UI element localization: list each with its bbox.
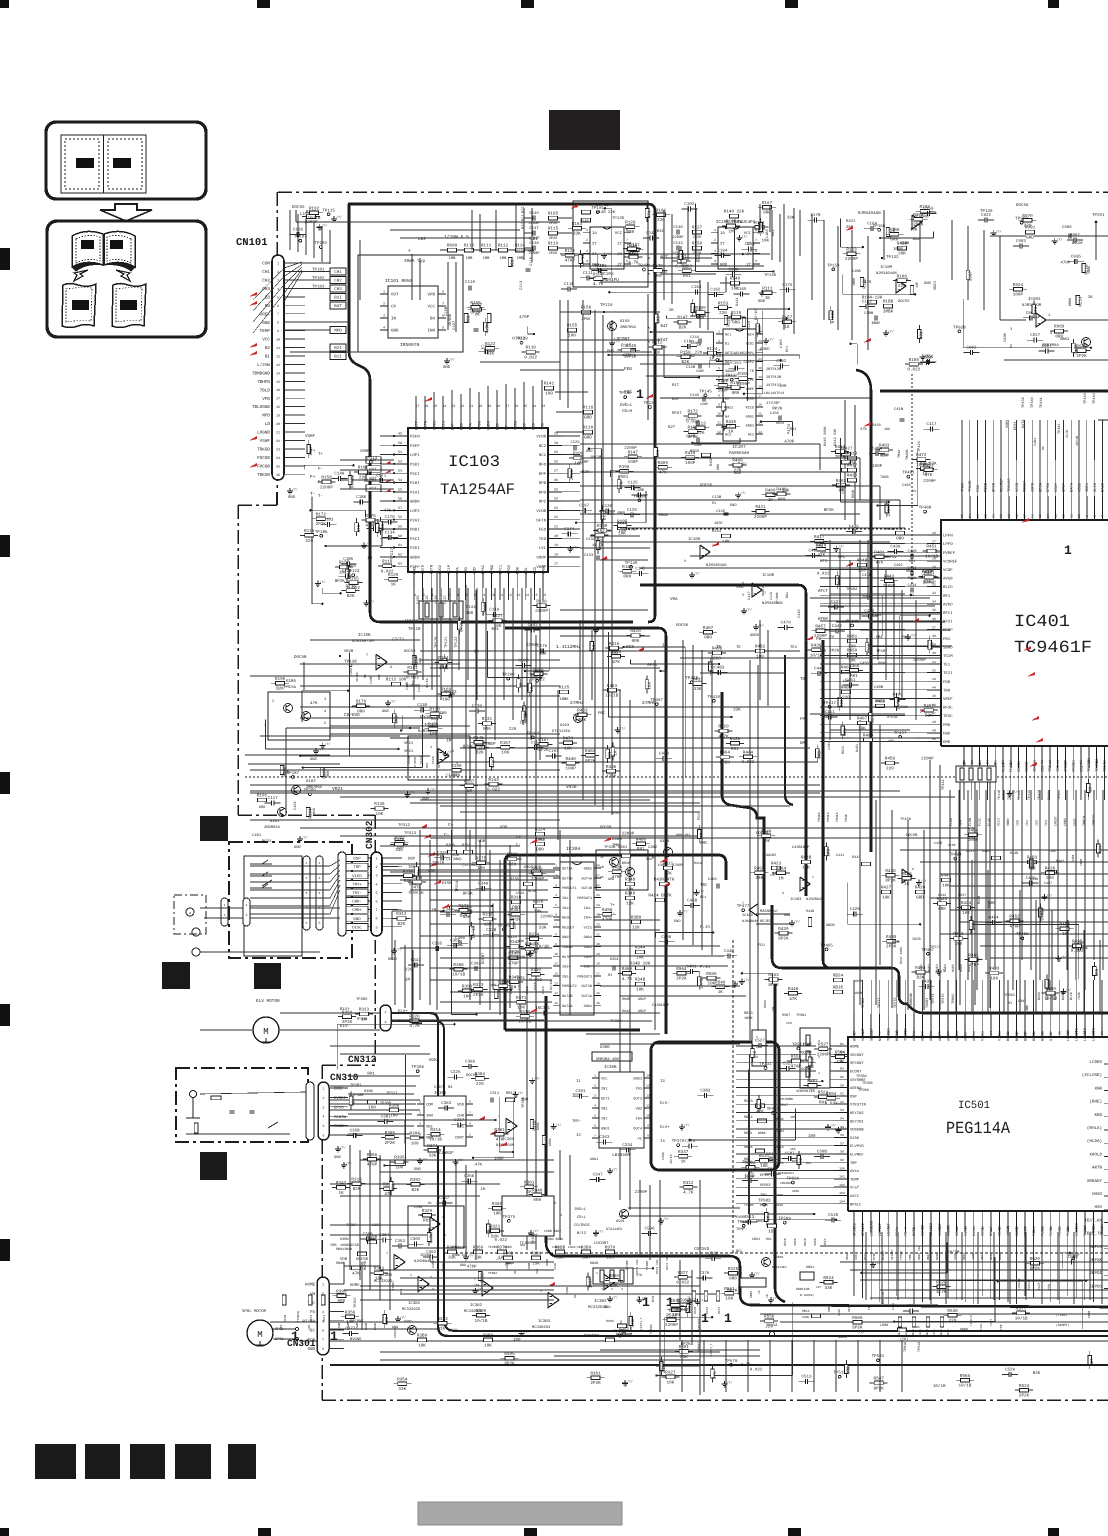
svg-text:/7/: /7/ <box>754 1271 760 1275</box>
svg-text:C520: C520 <box>906 1304 917 1309</box>
svg-text:C936: C936 <box>1071 254 1082 259</box>
svg-text:C180: C180 <box>684 339 695 344</box>
svg-text:35: 35 <box>932 608 936 612</box>
svg-text:RB35: RB35 <box>833 986 844 991</box>
svg-text:RB1B: RB1B <box>846 1253 849 1260</box>
svg-text:C440: C440 <box>724 949 735 954</box>
svg-text:27: 27 <box>932 539 936 543</box>
svg-text:HOME: HOME <box>305 1283 316 1288</box>
svg-text:RE2B: RE2B <box>562 916 570 921</box>
svg-text:R313: R313 <box>359 1008 370 1013</box>
svg-text:19: 19 <box>758 375 762 379</box>
down arrow <box>100 204 152 221</box>
svg-text:BUS0: BUS0 <box>1006 1032 1011 1041</box>
svg-text:/7/: /7/ <box>663 1217 669 1221</box>
svg-text:R112: R112 <box>652 341 663 346</box>
svg-text:C127: C127 <box>443 595 448 604</box>
svg-text:TPS77: TPS77 <box>877 997 882 1008</box>
svg-text:4: 4 <box>714 259 716 263</box>
svg-text:D30B: D30B <box>600 1045 610 1050</box>
svg-text:VOD: VOD <box>473 566 478 574</box>
svg-text:/7/: /7/ <box>524 1330 530 1334</box>
svg-text:R498: R498 <box>712 647 723 652</box>
svg-text:R3B4 B2OK: R3B4 B2OK <box>546 1237 563 1241</box>
CN310 mate pill <box>306 1082 314 1140</box>
svg-text:R395: R395 <box>394 1156 405 1161</box>
svg-text:220: 220 <box>898 284 906 289</box>
svg-text:4C: 4C <box>600 875 604 879</box>
svg-text:ELVREF: ELVREF <box>850 1153 864 1158</box>
svg-text:8P2K: 8P2K <box>335 579 346 584</box>
svg-text:C134: C134 <box>385 530 396 535</box>
svg-text:VRA: VRA <box>455 566 460 574</box>
svg-text:VCC: VCC <box>262 338 270 343</box>
svg-text:R457: R457 <box>815 624 826 629</box>
svg-text:TPB1G: TPB1G <box>903 1342 908 1352</box>
C129 cap <box>573 446 575 451</box>
svg-text:R565: R565 <box>852 1316 863 1321</box>
svg-text:DMO: DMO <box>800 741 808 746</box>
svg-text:C1BB: C1BB <box>852 269 861 274</box>
svg-text:6: 6 <box>442 314 444 319</box>
svg-text:TPSB1: TPSB1 <box>796 1013 806 1018</box>
black square fiducial left CN302 <box>162 962 190 989</box>
svg-text:EOB: EOB <box>459 422 464 430</box>
svg-text:/7/: /7/ <box>744 978 750 982</box>
svg-text:C906: C906 <box>1062 225 1072 230</box>
svg-text:1M: 1M <box>446 738 452 743</box>
svg-text:R148: R148 <box>622 565 633 570</box>
svg-text:5: 5 <box>319 921 321 925</box>
svg-text:/7/: /7/ <box>692 1297 698 1301</box>
svg-text:1: 1 <box>319 861 321 865</box>
svg-text:52: 52 <box>398 459 402 464</box>
svg-text:2: 2 <box>375 865 377 870</box>
svg-text:22: 22 <box>984 514 988 518</box>
svg-text:XNR: XNR <box>1094 1086 1102 1091</box>
left 3pin pack <box>752 1030 766 1066</box>
svg-text:100P: 100P <box>566 767 577 772</box>
svg-text:R429: R429 <box>718 725 729 730</box>
svg-text:/7/: /7/ <box>699 889 705 893</box>
svg-text:R179: R179 <box>356 700 367 705</box>
svg-text:GND: GND <box>730 503 736 508</box>
svg-text:1: 1 <box>224 903 226 907</box>
svg-text:8P2K: 8P2K <box>778 937 789 942</box>
svg-text:C353: C353 <box>395 1239 406 1244</box>
svg-text:DATA: DATA <box>1070 482 1075 492</box>
svg-text:R452: R452 <box>1009 915 1020 920</box>
gray footer bar <box>418 1502 622 1525</box>
svg-text:R373 10K: R373 10K <box>656 1259 659 1274</box>
svg-text:8P2K: 8P2K <box>874 1386 885 1391</box>
svg-text:1MBK: 1MBK <box>883 309 894 314</box>
svg-text:C411: C411 <box>825 710 836 715</box>
svg-text:TRKGD: TRKGD <box>257 448 270 453</box>
svg-text:DEIC: DEIC <box>823 1238 827 1246</box>
svg-text:2200P: 2200P <box>528 236 540 241</box>
svg-text:+: + <box>408 248 411 254</box>
svg-text:11: 11 <box>646 1104 650 1108</box>
svg-text:R361: R361 <box>590 1372 601 1377</box>
svg-text:T-: T- <box>310 491 316 497</box>
svg-text:C1BB: C1BB <box>864 311 874 316</box>
svg-text:RE2OUT: RE2OUT <box>562 925 575 930</box>
svg-text:17470P: 17470P <box>766 401 780 406</box>
svg-text:R147: R147 <box>628 450 639 455</box>
svg-text:NC: NC <box>504 425 509 430</box>
svg-text:/7/: /7/ <box>325 742 331 746</box>
svg-text:FEB: FEB <box>531 422 536 430</box>
svg-text:R345: R345 <box>394 838 405 843</box>
svg-text:43: 43 <box>932 677 936 681</box>
svg-text:TRC: TRC <box>700 883 708 888</box>
op-amp circuit box IC101 <box>358 255 463 352</box>
svg-text:1: 1 <box>636 387 644 402</box>
svg-text:R463: R463 <box>585 749 596 754</box>
svg-text:C143: C143 <box>673 241 683 246</box>
svg-text:100K: 100K <box>802 1316 809 1319</box>
R1B4 R1BB parts <box>868 300 877 304</box>
svg-text:10/1B: 10/1B <box>429 1137 442 1143</box>
svg-text:14: 14 <box>646 1074 650 1078</box>
svg-text:FLSC: FLSC <box>978 818 982 826</box>
svg-text:33K: 33K <box>474 1255 482 1260</box>
svg-text:11: 11 <box>276 346 280 351</box>
svg-text:C90B: C90B <box>1003 333 1008 342</box>
svg-text:FOO: FOO <box>943 680 951 685</box>
RS24 RS35 resistors <box>834 978 843 982</box>
svg-text:36: 36 <box>932 617 936 621</box>
svg-text:C133: C133 <box>584 553 594 558</box>
svg-text:R493: R493 <box>989 967 1000 972</box>
svg-text:R145: R145 <box>473 736 484 741</box>
svg-text:8P2K: 8P2K <box>720 760 731 765</box>
svg-text:AD5: AD5 <box>955 1035 960 1041</box>
svg-text:99: 99 <box>840 1158 844 1162</box>
svg-text:CKSZ: CKSZ <box>1072 762 1077 772</box>
svg-text:1MBK: 1MBK <box>852 277 857 286</box>
svg-text:50: 50 <box>932 737 936 741</box>
svg-text:C102: C102 <box>684 202 695 207</box>
svg-text:DISK: DISK <box>850 1136 860 1141</box>
svg-text:OUT1A: OUT1A <box>562 867 573 872</box>
svg-text:LPFN: LPFN <box>943 534 953 539</box>
svg-text:BLCK: BLCK <box>1040 1032 1045 1041</box>
svg-text:1: 1 <box>277 262 279 267</box>
svg-text:MAD2: MAD2 <box>927 964 931 972</box>
svg-text:R330: R330 <box>403 869 414 874</box>
svg-text:22: 22 <box>596 923 600 927</box>
svg-text:R420: R420 <box>630 629 641 634</box>
svg-text:RB04: RB04 <box>763 1000 767 1008</box>
svg-text:C145: C145 <box>635 566 646 571</box>
svg-text:1K: 1K <box>681 1160 687 1165</box>
svg-text:R969: R969 <box>1054 325 1065 330</box>
svg-text:TE: TE <box>750 369 754 374</box>
svg-text:C137: C137 <box>529 226 539 231</box>
svg-text:VC: VC <box>638 1137 642 1142</box>
svg-text:10K: 10K <box>725 1297 733 1302</box>
svg-text:R322: R322 <box>532 867 543 872</box>
svg-text:C170: C170 <box>385 515 396 520</box>
svg-text:RB41: RB41 <box>927 1253 930 1260</box>
svg-text:104: 104 <box>839 1200 845 1204</box>
svg-text:C902: C902 <box>966 345 977 350</box>
svg-text:C484: C484 <box>872 447 883 452</box>
svg-text:20: 20 <box>999 514 1003 518</box>
svg-text:R118: R118 <box>382 560 393 565</box>
svg-text:R3B9: R3B9 <box>483 1334 494 1339</box>
bus wire bottom LDCONT <box>554 1256 1108 1307</box>
svg-text:R37B: R37B <box>284 1315 287 1322</box>
svg-text:B1I: B1I <box>334 355 342 360</box>
svg-text:1COP: 1COP <box>948 843 956 847</box>
svg-text:47K: 47K <box>1034 307 1039 315</box>
svg-text:45: 45 <box>932 694 936 698</box>
svg-text:47K: 47K <box>860 427 868 432</box>
svg-text:R190: R190 <box>275 677 286 682</box>
svg-text:1M: 1M <box>700 832 705 838</box>
svg-text:/7/: /7/ <box>941 968 947 972</box>
svg-text:R554: R554 <box>826 1092 837 1097</box>
svg-text:PBTN: PBTN <box>430 565 435 574</box>
svg-text:57: 57 <box>398 506 402 511</box>
wire mesh verticals <box>437 300 990 1395</box>
svg-text:R01: R01 <box>423 1219 431 1224</box>
svg-text:MAD5: MAD5 <box>951 964 955 972</box>
svg-text:6: 6 <box>322 1329 324 1334</box>
svg-text:BRBK: BRBK <box>1068 297 1073 306</box>
svg-text:TM413: TM413 <box>826 812 830 822</box>
svg-text:TP3B5Q: TP3B5Q <box>297 1311 300 1322</box>
svg-text:8P2K: 8P2K <box>504 1362 515 1367</box>
svg-text:GNDX: GNDX <box>486 420 491 430</box>
svg-text:R11: R11 <box>400 1288 403 1294</box>
svg-text:C325: C325 <box>450 1070 461 1075</box>
svg-text:C31B: C31B <box>525 986 529 994</box>
svg-text:IN4: IN4 <box>636 1117 642 1122</box>
svg-text:TP41B: TP41B <box>1017 790 1022 800</box>
svg-text:PSC: PSC <box>522 422 527 430</box>
svg-text:G404: G404 <box>660 839 670 844</box>
svg-text:a: a <box>189 912 191 916</box>
svg-text:FOCGR: FOCGR <box>257 464 270 469</box>
svg-text:PSCI: PSCI <box>410 537 420 542</box>
svg-text:VIO: VIO <box>998 1035 1003 1041</box>
svg-text:470P: 470P <box>606 775 617 780</box>
svg-text:RO1: RO1 <box>377 674 381 680</box>
svg-text:6: 6 <box>912 867 914 871</box>
svg-text:GND: GND <box>924 281 932 286</box>
svg-text:C+: C+ <box>448 823 454 828</box>
svg-text:C3BO: C3BO <box>566 1287 569 1294</box>
svg-text:IC501: IC501 <box>958 1100 990 1112</box>
svg-text:10/1B: 10/1B <box>475 1318 488 1324</box>
svg-text:4.7K: 4.7K <box>1074 344 1079 355</box>
svg-text:5: 5 <box>469 1133 471 1137</box>
svg-text:23: 23 <box>276 447 280 452</box>
svg-text:RO1: RO1 <box>909 559 915 564</box>
svg-text:RB40 10K: RB40 10K <box>918 1245 921 1260</box>
svg-text:C436: C436 <box>849 525 860 530</box>
R411 R430 resistors <box>664 866 673 870</box>
cluster pass3 <box>629 255 638 259</box>
svg-text:KB01: KB01 <box>806 1265 814 1270</box>
svg-text:B2/1B: B2/1B <box>549 980 553 990</box>
svg-text:R393: R393 <box>507 853 518 858</box>
svg-text:10/1B: 10/1B <box>605 693 618 699</box>
svg-text:100P: 100P <box>968 271 973 282</box>
svg-text:/7/: /7/ <box>430 787 436 791</box>
svg-text:7: 7 <box>277 312 279 317</box>
svg-text:GND: GND <box>353 917 361 922</box>
cluster above IC401 <box>737 492 739 495</box>
svg-text:FLGB: FLGB <box>1049 1227 1054 1236</box>
wire mesh pass2 verticals <box>290 205 1100 1345</box>
svg-text:LCD2N: LCD2N <box>1066 1030 1071 1041</box>
bottom-left black squares row <box>35 1444 76 1479</box>
legend box 1 (page spread) <box>46 122 206 199</box>
svg-text:R01: R01 <box>850 674 858 679</box>
svg-text:PREOUT1: PREOUT1 <box>562 886 577 891</box>
svg-text:120P: 120P <box>700 402 708 407</box>
svg-text:20: 20 <box>276 422 280 427</box>
svg-text:0.022: 0.022 <box>381 569 394 574</box>
svg-text:C110: C110 <box>465 280 476 285</box>
svg-text:R390: R390 <box>462 985 473 990</box>
svg-text:XNAB: XNAB <box>998 1227 1003 1236</box>
svg-text:220: 220 <box>305 539 313 544</box>
svg-text:1: 1 <box>330 1329 338 1344</box>
svg-text:TEST_RX: TEST_RX <box>1084 1218 1102 1223</box>
svg-text:1K: 1K <box>765 296 771 301</box>
svg-text:R155: R155 <box>730 381 741 386</box>
svg-text:SPOL MOTOR: SPOL MOTOR <box>242 1309 267 1314</box>
svg-text:R4B1: R4B1 <box>847 635 858 640</box>
svg-text:R156: R156 <box>581 306 592 311</box>
svg-text:B3I: B3I <box>521 222 526 229</box>
svg-text:LDO1: LDO1 <box>432 420 437 430</box>
svg-text:R187: R187 <box>538 738 549 743</box>
svg-text:47K: 47K <box>681 252 686 260</box>
svg-text:C174: C174 <box>564 527 575 532</box>
svg-text:R01: R01 <box>683 274 691 279</box>
svg-text:C328: C328 <box>486 928 497 933</box>
svg-text:OUT4B: OUT4B <box>581 886 592 891</box>
svg-text:P1AI: P1AI <box>410 490 420 495</box>
svg-text:VCC: VCC <box>615 231 623 236</box>
svg-text:1: 1 <box>384 1010 386 1015</box>
svg-text:1: 1 <box>1064 543 1072 558</box>
svg-text:R149: R149 <box>730 277 741 282</box>
svg-text:LCDRS: LCDRS <box>1089 1060 1102 1065</box>
svg-text:RPB: RPB <box>539 481 547 486</box>
svg-text:C115: C115 <box>529 256 534 266</box>
svg-text:C41B: C41B <box>862 573 872 578</box>
svg-text:/7/: /7/ <box>346 1161 352 1165</box>
svg-text:B4: B4 <box>986 760 990 764</box>
svg-text:B2K: B2K <box>843 728 848 736</box>
svg-text:470P: 470P <box>367 1163 378 1168</box>
svg-text:C121: C121 <box>342 569 353 574</box>
svg-text:TPB1B: TPB1B <box>773 1236 777 1246</box>
svg-text:0R0: 0R0 <box>385 1316 390 1324</box>
resistor array bottom of IC103 <box>425 603 429 617</box>
svg-text:R5B7: R5B7 <box>782 1013 790 1018</box>
dashed box CD/DVD <box>445 1252 1108 1254</box>
svg-text:C4B7: C4B7 <box>1044 881 1052 886</box>
svg-text:C130: C130 <box>417 703 428 708</box>
svg-text:24K: 24K <box>536 1268 539 1274</box>
svg-text:R342: R342 <box>509 940 520 945</box>
svg-text:R30B: R30B <box>364 1089 373 1094</box>
svg-text:R4B1: R4B1 <box>1071 854 1075 862</box>
svg-text:TP107: TP107 <box>294 235 307 240</box>
svg-text:B2K: B2K <box>353 1187 361 1192</box>
svg-text:470P: 470P <box>519 315 530 320</box>
svg-text:10K: 10K <box>667 1380 675 1385</box>
svg-text:R155: R155 <box>567 324 578 329</box>
svg-text:DSP: DSP <box>850 1094 858 1099</box>
svg-text:TMAX: TMAX <box>897 449 902 458</box>
svg-text:FLGD: FLGD <box>1009 762 1014 772</box>
svg-text:TP439: TP439 <box>1021 397 1026 408</box>
svg-text:100: 100 <box>657 316 662 324</box>
svg-text:GND: GND <box>294 845 302 850</box>
svg-text:B1T: B1T <box>672 383 680 388</box>
svg-text:TEST_TX: TEST_TX <box>1084 1232 1102 1237</box>
svg-text:100P: 100P <box>588 1278 593 1289</box>
svg-text:CB07: CB07 <box>1018 999 1026 1004</box>
svg-text:100K: 100K <box>933 1329 936 1336</box>
vertical curtain under IC401 <box>950 790 1103 990</box>
svg-text:R34B: R34B <box>625 878 636 883</box>
svg-text:470P: 470P <box>309 445 314 456</box>
cluster between IC304 and IC501 <box>707 976 716 980</box>
black square fiducial below CN310 <box>200 1152 227 1180</box>
svg-text:R436: R436 <box>1045 866 1056 871</box>
svg-text:53: 53 <box>398 469 402 474</box>
svg-text:4: 4 <box>594 1104 596 1108</box>
svg-text:VPD: VPD <box>262 397 270 402</box>
svg-text:8P2K: 8P2K <box>1030 1267 1041 1272</box>
svg-text:51: 51 <box>398 450 402 455</box>
lower circle b <box>192 948 200 956</box>
svg-text:/7/: /7/ <box>534 1077 540 1081</box>
bus wire top horizontal <box>348 204 655 622</box>
svg-text:VDCONT: VDCONT <box>861 1027 866 1041</box>
wires to mech <box>250 860 340 866</box>
svg-text:RG1: RG1 <box>785 592 790 598</box>
svg-text:C119: C119 <box>769 592 774 600</box>
svg-text:23: 23 <box>554 506 558 511</box>
svg-text:Xin: Xin <box>972 1230 977 1236</box>
svg-text:/7/: /7/ <box>910 633 916 637</box>
svg-text:1K: 1K <box>440 1327 446 1332</box>
svg-text:I4: I4 <box>660 1139 665 1144</box>
svg-text:8: 8 <box>469 1100 471 1104</box>
svg-text:FLBA: FLBA <box>892 1303 895 1310</box>
svg-text:2P2K: 2P2K <box>570 469 575 480</box>
svg-text:IN1+: IN1+ <box>562 906 570 911</box>
svg-text:R495: R495 <box>1072 939 1083 944</box>
svg-text:51: 51 <box>1100 1031 1104 1035</box>
svg-text:1: 1 <box>306 861 308 865</box>
svg-text:R124: R124 <box>707 347 718 352</box>
svg-text:R478: R478 <box>816 543 827 548</box>
svg-text:1K: 1K <box>709 357 715 362</box>
